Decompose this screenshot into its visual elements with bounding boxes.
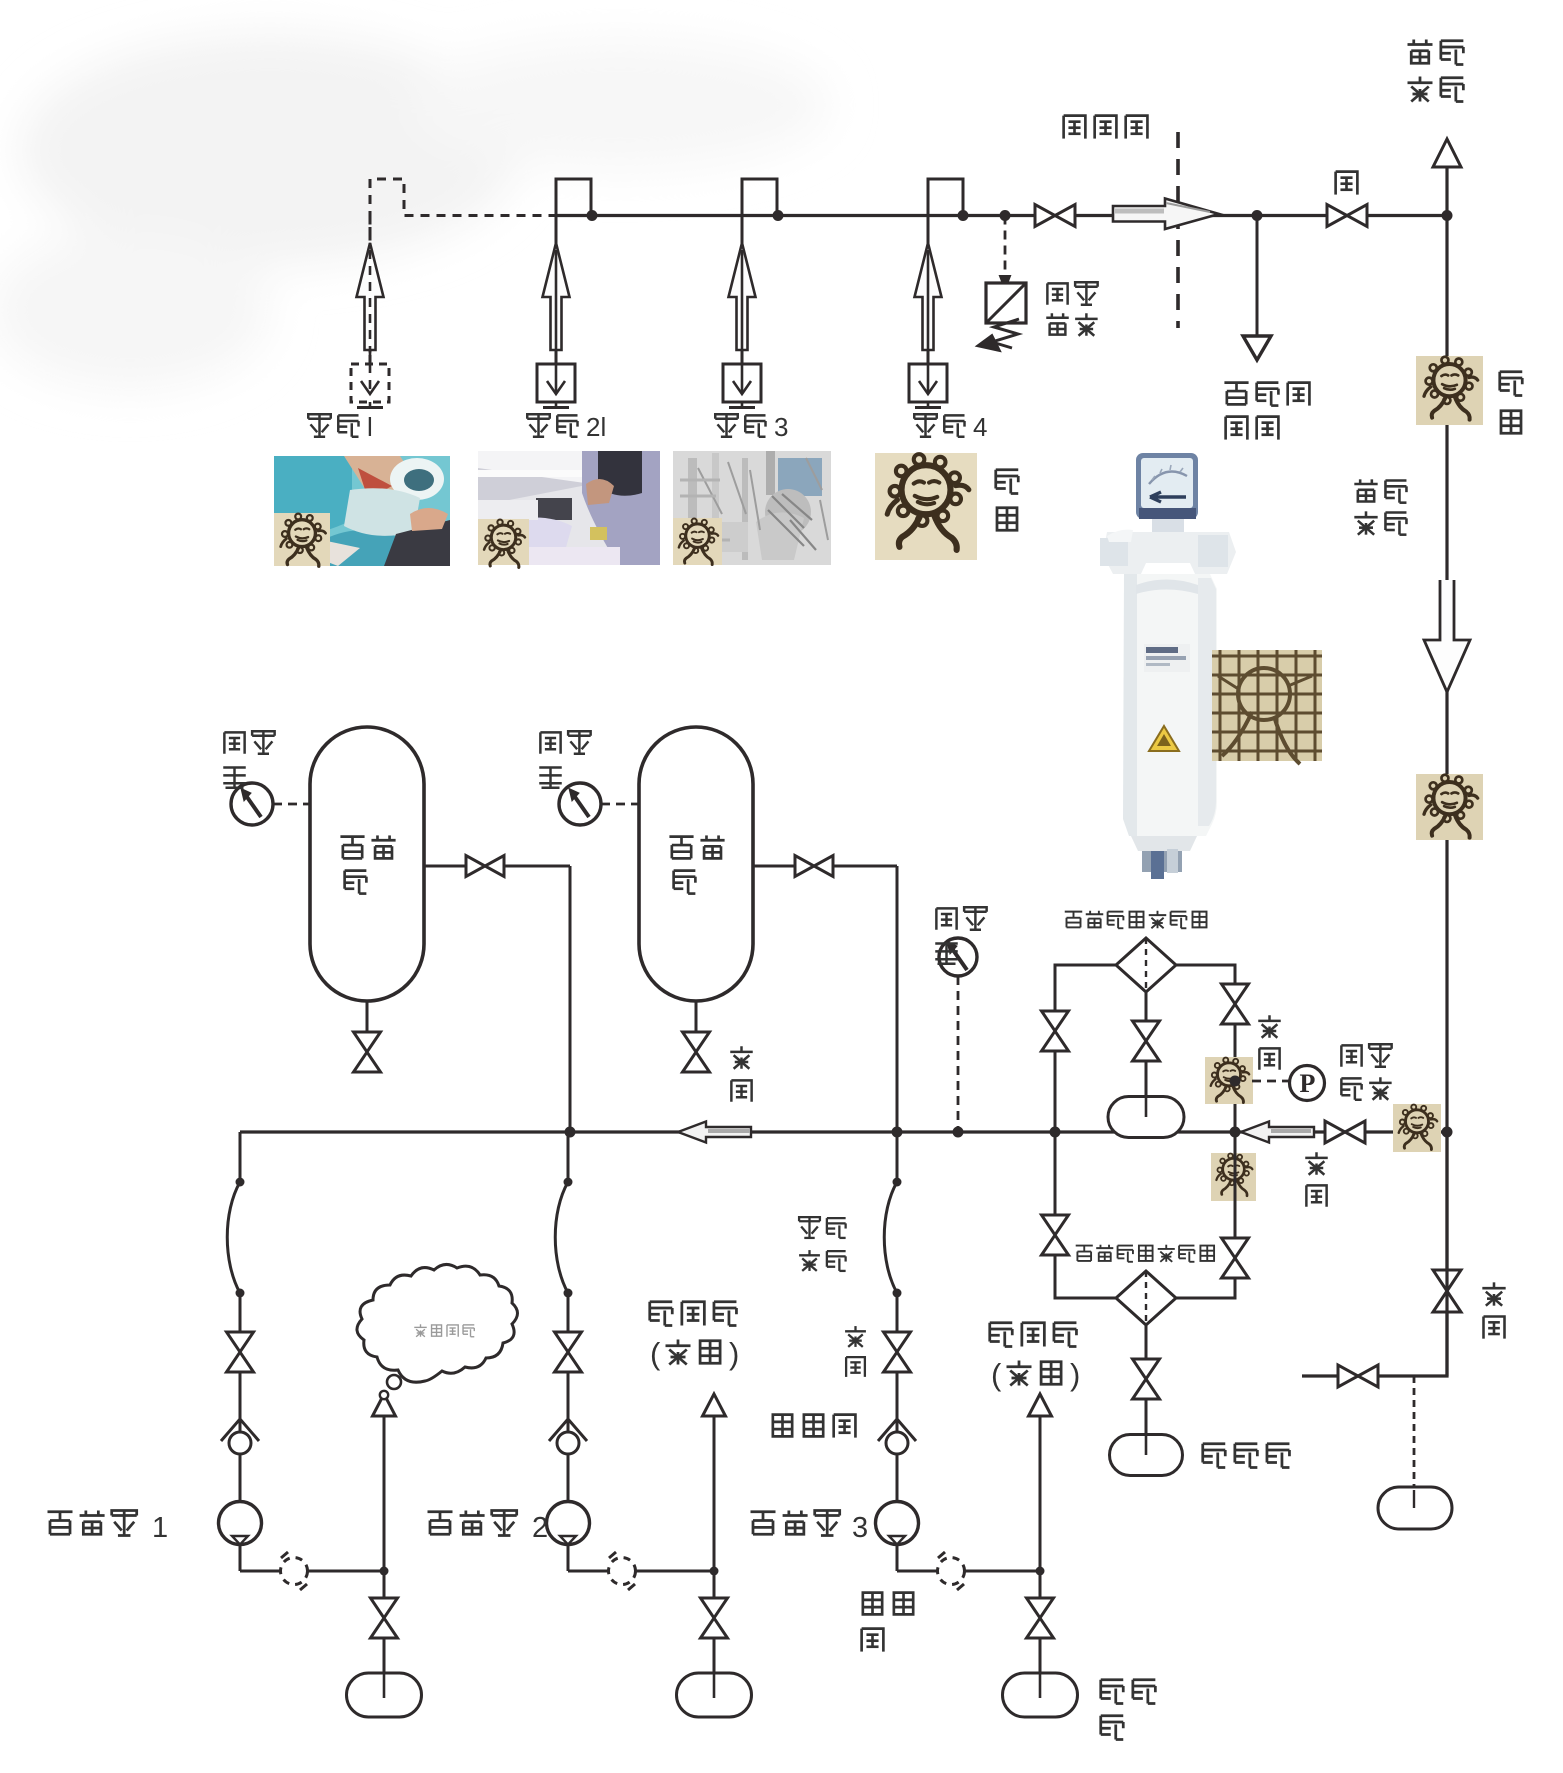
vacuum tank 2 真空罐 — [639, 727, 753, 1001]
dashed signal line to pressure switch — [1004, 216, 1007, 277]
pressure gauge 3 with dashed tap — [957, 976, 960, 1132]
label 压力表 3 — [936, 908, 956, 929]
junction dot after terminal 2 — [587, 210, 598, 221]
vacuum pump branch 3 — [896, 1132, 899, 1182]
valve (bowtie) before riser — [1327, 205, 1367, 227]
svg-text:3: 3 — [774, 412, 788, 442]
pressure switch spring zigzag — [992, 319, 1019, 348]
pressure gauge 1 — [273, 803, 310, 806]
label 细菌 photos row — [996, 470, 1019, 494]
label 球阀 header — [1305, 1152, 1328, 1175]
bowtie valve on stub — [1338, 1365, 1378, 1387]
photo terminal 2 lab scene — [478, 451, 660, 565]
junction dot other-ward tap — [1252, 210, 1263, 221]
ball valve right branch lower — [1222, 1238, 1249, 1278]
label 压力表 1 — [224, 732, 244, 753]
bacteria icon on riser (middle) — [1416, 774, 1483, 840]
tank2 outlet wire and valve — [753, 865, 897, 868]
dashed wire to transmitter P — [1252, 1080, 1290, 1083]
bacteria icon overlay photo2 — [478, 519, 529, 565]
junction dot to pressure transmitter — [1230, 1076, 1241, 1087]
photo terminal 3 equipment sketch — [673, 451, 831, 565]
label 病房区 — [1064, 116, 1086, 139]
wire tank2 to pump header — [896, 866, 899, 1132]
label 球阀 branch3 small — [845, 1326, 866, 1347]
big flow arrow to the right — [1113, 206, 1165, 222]
photo terminal 1 surgery scene — [274, 456, 450, 566]
label 排液瓶 branch3 bottle — [1101, 1680, 1124, 1704]
pressure switch box — [986, 283, 1026, 323]
junction dot after terminal 3 — [773, 210, 784, 221]
label 压力开关 — [1047, 283, 1067, 304]
junction dot after terminal 4 — [958, 210, 969, 221]
vacuum pump branch 2 — [567, 1132, 570, 1182]
filter upper drain wire and valve — [1145, 992, 1148, 1097]
cloud text 无菌气体 — [414, 1324, 427, 1337]
wire: main ward line solid — [556, 214, 1447, 217]
label 真空泵 2 — [428, 1512, 453, 1535]
filter lower drain bottle capsule — [1110, 1435, 1183, 1476]
arrowhead other ward (hollow down triangle) — [1243, 336, 1271, 360]
header junction dots — [565, 1127, 576, 1138]
label 真空除菌过滤器 lower — [1076, 1246, 1093, 1261]
bacteria icon overlay photo1 — [274, 513, 330, 566]
hollow left arrow on header (left) — [678, 1122, 751, 1143]
vacuum tank 1 真空罐 — [310, 727, 424, 1001]
junction dot pressure-switch tap — [1000, 210, 1011, 221]
bacteria icon on riser (top) — [1416, 356, 1483, 425]
filter product photo — [1100, 453, 1236, 879]
svg-text:): ) — [729, 1336, 739, 1371]
wire: dashed branch for terminal 1 — [370, 179, 556, 364]
ward boundary dashed line — [1176, 132, 1180, 328]
tank1 outlet wire and valve — [424, 865, 570, 868]
label 压力传送 — [1341, 1045, 1361, 1066]
label 压力表 2 — [540, 732, 560, 753]
svg-text:4: 4 — [973, 412, 987, 442]
label 柔性连接 — [799, 1217, 820, 1238]
terminal 2 loop box — [556, 179, 591, 216]
sterile gas cloud — [357, 1264, 518, 1399]
bacteria icon overlay photo3 — [673, 518, 722, 565]
ball valve right branch upper — [1222, 984, 1249, 1024]
label 其他病房区 — [1224, 383, 1248, 405]
svg-text:1: 1 — [152, 1512, 168, 1544]
label 真空泵 1 — [48, 1512, 73, 1535]
label 球阀 tank2 drain — [730, 1046, 753, 1069]
junction dot top right — [1442, 210, 1453, 221]
label 排气端(无菌) branch3 — [990, 1323, 1013, 1347]
filter upper drain bottle capsule — [1108, 1097, 1184, 1138]
label 末端1 — [308, 414, 331, 437]
filter loop wires lower — [1055, 1132, 1117, 1298]
svg-text:3: 3 — [852, 1512, 868, 1544]
right riser elbow to valve stub — [1302, 1132, 1447, 1376]
vacuum sterilizing filter upper (diamond) — [1116, 938, 1176, 992]
label 真空除菌过滤器 upper — [1065, 912, 1083, 928]
dashed drop to drain capsule — [1413, 1376, 1416, 1488]
label 球阀 riser — [1482, 1282, 1505, 1305]
label 排气端(无菌) branch2 — [650, 1302, 673, 1326]
wire down to other ward area — [1256, 216, 1259, 338]
tank2 drain valve — [695, 1001, 698, 1035]
pressure transmitter circle P — [1290, 1066, 1325, 1101]
bacteria icon below junction — [1211, 1153, 1256, 1201]
right drain capsule — [1378, 1487, 1452, 1529]
bacteria icon above junction — [1205, 1057, 1253, 1104]
svg-text:l: l — [367, 412, 373, 442]
tank1 drain valve — [366, 1001, 369, 1035]
ball valve bowtie on header right — [1325, 1121, 1365, 1143]
vacuum sterilizing filter lower (diamond) — [1116, 1271, 1176, 1325]
label 单向阀 check valve branch3 — [773, 1415, 792, 1437]
svg-text:P: P — [1300, 1069, 1316, 1098]
svg-text:): ) — [1070, 1357, 1080, 1392]
terminal 2 outlet with up arrow — [555, 216, 558, 365]
label 管路系统 top — [1408, 40, 1433, 64]
terminal 4 outlet with up arrow — [927, 216, 930, 365]
wire tank1 to pump header — [569, 866, 572, 1132]
pipeline riser arrowhead up — [1445, 168, 1448, 216]
svg-text:(: ( — [650, 1336, 661, 1371]
terminal 3 outlet with up arrow — [741, 216, 744, 365]
label 阀 — [1336, 172, 1358, 195]
hollow down arrow on riser — [1424, 580, 1470, 692]
valve (bowtie) on ward line — [1035, 205, 1075, 227]
svg-text:(: ( — [991, 1357, 1002, 1392]
label 细菌 right top — [1500, 372, 1523, 396]
svg-text:2: 2 — [532, 1512, 548, 1544]
label 单向阀 coupling — [863, 1593, 882, 1615]
label 末端3 — [715, 414, 738, 437]
filter lower drain wire and valve — [1145, 1325, 1148, 1434]
hollow left arrow on header (right) — [1241, 1122, 1314, 1143]
vacuum pump branch 1 (pump, check valve, valves, exhaust, drain) — [239, 1132, 242, 1182]
terminal 3 loop box — [742, 179, 777, 216]
label 管路系统 middle — [1354, 479, 1377, 501]
terminal 4 loop box — [928, 179, 963, 216]
ball valve left branch lower — [1042, 1215, 1069, 1255]
filter loop wires upper — [1055, 965, 1117, 1132]
pump header main wire — [240, 1130, 1447, 1133]
pressure gauge 2 — [601, 803, 639, 806]
label 真空泵3 — [751, 1512, 776, 1535]
label 末端2l — [527, 414, 550, 437]
right riser wire — [1445, 216, 1448, 1377]
faint watermark blobs top-left — [0, 35, 830, 390]
bacteria icon on header right — [1393, 1104, 1441, 1152]
ball valve left branch upper — [1042, 1011, 1069, 1051]
label 排液瓶 filter bottle — [1203, 1444, 1226, 1468]
label 末端4 — [914, 414, 937, 437]
bacteria-on-grid icon — [1212, 650, 1322, 761]
terminal 1 (dashed outlet) with up arrow — [369, 216, 372, 365]
svg-text:2l: 2l — [586, 412, 606, 442]
big bacteria icon terminal 4 — [875, 453, 977, 560]
ball valve on right riser — [1433, 1270, 1461, 1312]
label 球阀 right branch — [1258, 1015, 1281, 1038]
